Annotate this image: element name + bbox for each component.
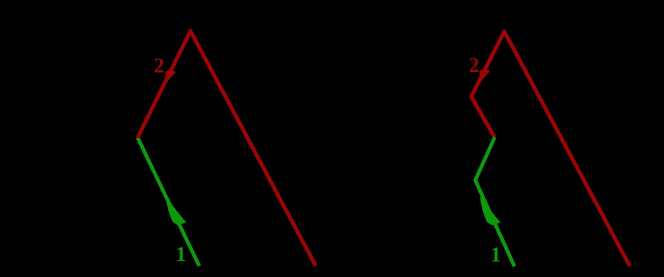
- svg-text:2: 2: [469, 53, 480, 77]
- arrowhead on green wave 1 (left), latex-style pointing up-left: [166, 197, 186, 225]
- wire: red wave 2 path and long descent (left): [138, 31, 316, 266]
- arrowhead on red wave 2 (left), pointing down-left: [165, 69, 176, 82]
- arrowhead on green wave 1 (right), latex-style pointing up-left: [480, 197, 500, 225]
- wire: green wave 1 line (left): [138, 138, 200, 267]
- svg-text:2: 2: [154, 54, 165, 78]
- arrowhead on red wave 2 (right), pointing down-left: [479, 69, 490, 82]
- svg-text:1: 1: [176, 242, 187, 266]
- wire: red wave 2 zigzag and long descent (right): [471, 32, 630, 267]
- svg-text:1: 1: [490, 243, 501, 267]
- wire: green wave 1 zigzag (right): [475, 137, 514, 266]
